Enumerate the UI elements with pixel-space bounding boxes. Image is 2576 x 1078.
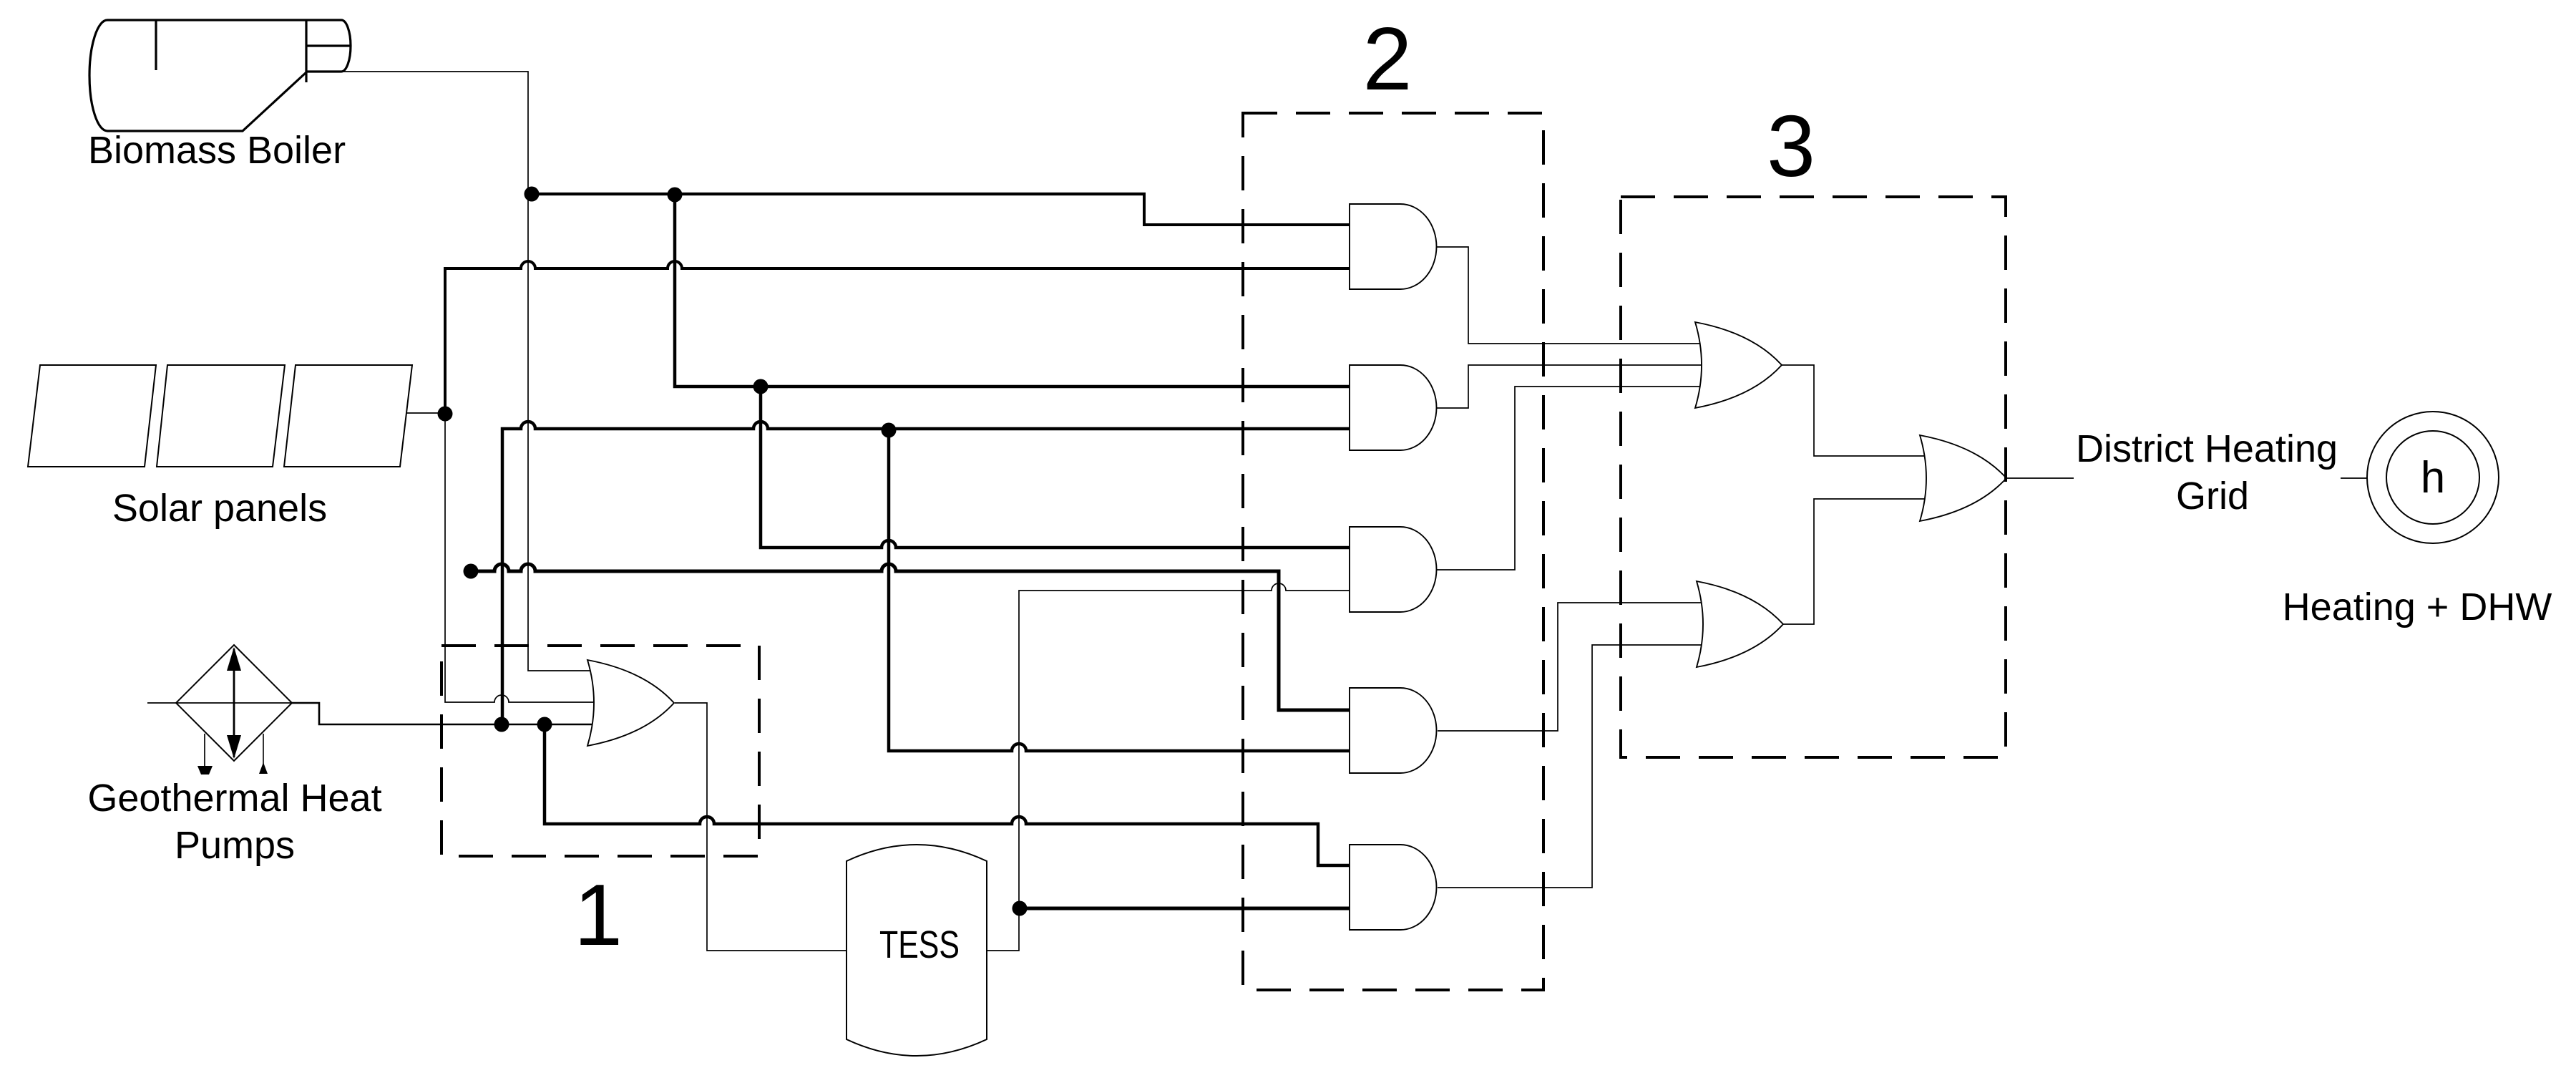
svg-text:TESS: TESS xyxy=(879,923,960,966)
wire OR3 output to OR4 input 2 xyxy=(1782,499,1938,624)
junction dot node E1 xyxy=(494,717,509,732)
biomass boiler symbol xyxy=(89,20,351,131)
and-gate A4 xyxy=(1350,688,1437,773)
district heating grid symbol outer circle xyxy=(2367,412,2499,543)
wire AND5 output to OR3 input 2 xyxy=(1438,645,1714,888)
solar panel 2 xyxy=(157,365,285,467)
wire solar panel lead xyxy=(406,412,447,414)
and-gate A2 xyxy=(1350,365,1437,450)
wire OR4 output segment xyxy=(2005,477,2074,479)
wire line 3 to AND2 input 2 xyxy=(502,422,1354,724)
svg-text:Solar panels: Solar panels xyxy=(112,487,327,530)
box 3 dashed xyxy=(1621,197,2006,757)
wire OR1 output to TESS xyxy=(675,703,849,951)
wire solar riser line 2 to AND1 input 2 xyxy=(445,261,1354,414)
wire geothermal output to OR1 xyxy=(292,703,601,724)
and-gate A1 xyxy=(1350,204,1437,289)
TESS tank xyxy=(847,845,987,1056)
wire TESS output up to AND3 input 2 xyxy=(987,583,1354,951)
wire line 4 to AND4 input 1 xyxy=(471,564,1354,710)
wire solar panel down branch to OR1 xyxy=(445,414,601,702)
junction dot node C xyxy=(753,379,769,394)
wire AND4 output to OR3 input 1 xyxy=(1438,603,1714,731)
geothermal heat pump symbol xyxy=(176,645,292,774)
svg-text:1: 1 xyxy=(574,866,623,963)
svg-text:Pumps: Pumps xyxy=(175,824,295,867)
wire branch node B down and right to AND2 input 1 xyxy=(675,193,1354,387)
wire AND2 output to OR2 input 2 xyxy=(1437,365,1713,408)
or-gate OR4 xyxy=(1920,435,2006,521)
wire TESS junction to AND5 input 2 xyxy=(1020,907,1354,911)
wire to district heating grid symbol xyxy=(2341,477,2368,479)
box 2 dashed xyxy=(1243,113,1543,990)
junction dot node D xyxy=(882,423,897,438)
junction dot line 4 start xyxy=(464,564,479,579)
wire branch node D down to AND4 input 2 xyxy=(889,430,1354,751)
wire boiler output to node B xyxy=(341,72,601,671)
wire AND1 output to OR2 input 1 xyxy=(1437,247,1713,344)
svg-text:2: 2 xyxy=(1363,10,1413,109)
svg-text:Grid: Grid xyxy=(2176,475,2249,518)
solar panel 1 xyxy=(28,365,156,467)
svg-text:Biomass Boiler: Biomass Boiler xyxy=(88,129,346,172)
or-gate OR3 xyxy=(1697,581,1783,667)
wire node A line 1 to step xyxy=(532,193,1146,195)
and-gate A5 xyxy=(1350,845,1437,930)
junction dot node E2 xyxy=(537,717,552,732)
svg-text:Geothermal Heat: Geothermal Heat xyxy=(87,777,381,820)
svg-text:Heating + DHW: Heating + DHW xyxy=(2283,586,2552,628)
junction dot TESS node xyxy=(1013,901,1028,916)
svg-text:3: 3 xyxy=(1767,97,1815,195)
junction dot node A xyxy=(525,187,540,202)
or-gate OR2 xyxy=(1695,322,1782,408)
and-gate A3 xyxy=(1350,527,1437,612)
svg-text:District Heating: District Heating xyxy=(2076,427,2338,470)
or-gate OR1 xyxy=(587,660,674,746)
wire node E down and right to AND5 input 1 xyxy=(545,724,1354,865)
solar panel 3 xyxy=(284,365,412,467)
district heating grid symbol inner circle xyxy=(2386,431,2479,524)
svg-text:h: h xyxy=(2421,453,2445,502)
box 1 dashed xyxy=(441,646,759,856)
wire geothermal left stub xyxy=(147,702,292,704)
junction dot node B xyxy=(668,188,683,203)
wire AND3 output to OR2 input 3 xyxy=(1437,387,1713,570)
wire step down to AND1 input 1 xyxy=(1144,193,1354,225)
junction dot solar node xyxy=(438,407,453,422)
wire OR2 output to OR4 input 1 xyxy=(1782,365,1938,456)
wire branch node C down to AND3 input 1 xyxy=(761,387,1354,548)
